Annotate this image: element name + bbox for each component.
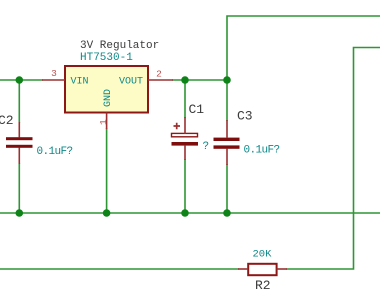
capacitor C3 plate bottom (214, 145, 240, 148)
svg-text:20K: 20K (253, 249, 273, 261)
capacitor C2 lead top (18, 122, 20, 138)
wire: vertical C3/output node up and to top-right (227, 16, 380, 121)
regulator U1 pin 3 lead (42, 79, 65, 81)
wire: vertical C1 branch upper (184, 80, 186, 118)
wire: left input horizontal to VIN (0, 79, 43, 81)
capacitor C2 lead bottom (18, 148, 20, 165)
junction: C3 bottom node (223, 209, 231, 217)
wire: VOUT horizontal to C3 node (172, 79, 227, 81)
regulator U1 pin 1 lead (106, 113, 108, 130)
resistor R2 lead right (277, 268, 287, 270)
svg-text:R2: R2 (255, 278, 271, 293)
wire: vertical C2 branch upper (18, 80, 20, 123)
wire: ground rail horizontal (0, 212, 380, 214)
svg-text:C3: C3 (237, 109, 253, 124)
svg-text:3V Regulator: 3V Regulator (80, 40, 159, 52)
svg-text:0.1uF?: 0.1uF? (37, 146, 73, 158)
junction: C2 bottom node (15, 209, 23, 217)
capacitor C1 plate top (hollow) (172, 133, 198, 136)
capacitor C3 plate top (214, 138, 240, 141)
junction: C3 top node (223, 76, 231, 84)
svg-text:VIN: VIN (71, 77, 89, 88)
capacitor C2 plate top (6, 137, 33, 140)
resistor R2 body (248, 264, 276, 275)
capacitor C2 plate bottom (6, 145, 33, 148)
svg-text:?: ? (203, 141, 210, 153)
wire: vertical C2 branch lower (18, 163, 20, 213)
svg-text:HT7530-1: HT7530-1 (80, 52, 133, 64)
wire: vertical C1 branch lower (184, 159, 186, 213)
svg-text:C1: C1 (189, 102, 205, 117)
capacitor C1 lead bottom (184, 146, 186, 160)
wire: vertical C3 branch lower (226, 164, 228, 213)
resistor R2 lead left (238, 268, 248, 270)
wire: feedback right vertical from top edge to R2 (286, 48, 380, 270)
regulator U1 HT7530-1 body (65, 66, 148, 113)
svg-text:2: 2 (156, 69, 162, 80)
junction: C1 bottom node (181, 209, 189, 217)
junction: VIN node (15, 76, 23, 84)
svg-text:VOUT: VOUT (119, 77, 143, 88)
svg-text:GND: GND (103, 89, 114, 107)
svg-text:3: 3 (51, 68, 57, 79)
svg-text:C2: C2 (0, 113, 14, 128)
wire: GND pin down to ground rail (106, 128, 108, 213)
junction: C1 top node (181, 76, 189, 84)
capacitor C3 lead top (226, 120, 228, 138)
capacitor C1 polarized plus sign (174, 123, 181, 130)
svg-text:1: 1 (98, 119, 109, 125)
capacitor C3 lead bottom (226, 149, 228, 165)
capacitor C1 lead top (184, 117, 186, 134)
capacitor C1 plate bottom (172, 142, 199, 146)
junction: GND bottom node (103, 209, 111, 217)
wire: bottom horizontal to R2 left (0, 268, 239, 270)
regulator U1 pin 2 lead (148, 79, 173, 81)
svg-text:0.1uF?: 0.1uF? (244, 145, 280, 157)
